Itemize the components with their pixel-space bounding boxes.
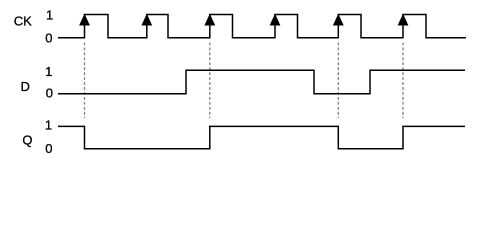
wire: CK clock waveform <box>58 15 466 38</box>
wire: D data waveform <box>58 70 465 94</box>
svg-text:0: 0 <box>46 85 53 100</box>
svg-text:1: 1 <box>45 64 52 79</box>
arrow: rising edge 5 <box>333 14 344 26</box>
wire: Q output waveform <box>58 126 465 148</box>
dashed sample line at edge 5 <box>337 43 339 119</box>
svg-text:1: 1 <box>46 7 53 22</box>
dashed sample line at edge 3 <box>209 43 211 119</box>
arrow: rising edge 2 <box>141 14 152 26</box>
arrow: rising edge 3 <box>204 14 215 26</box>
svg-text:0: 0 <box>45 30 52 45</box>
dashed sample line at edge 1 <box>84 43 86 119</box>
arrow: rising edge 1 <box>79 14 90 26</box>
svg-text:CK: CK <box>14 14 32 29</box>
svg-text:Q: Q <box>22 132 32 147</box>
arrow: rising edge 4 <box>270 14 281 26</box>
arrow: rising edge 6 <box>398 14 409 26</box>
dashed sample line at edge 6 <box>402 43 404 119</box>
svg-text:0: 0 <box>45 141 52 156</box>
svg-text:1: 1 <box>45 117 52 132</box>
svg-text:D: D <box>21 79 30 94</box>
